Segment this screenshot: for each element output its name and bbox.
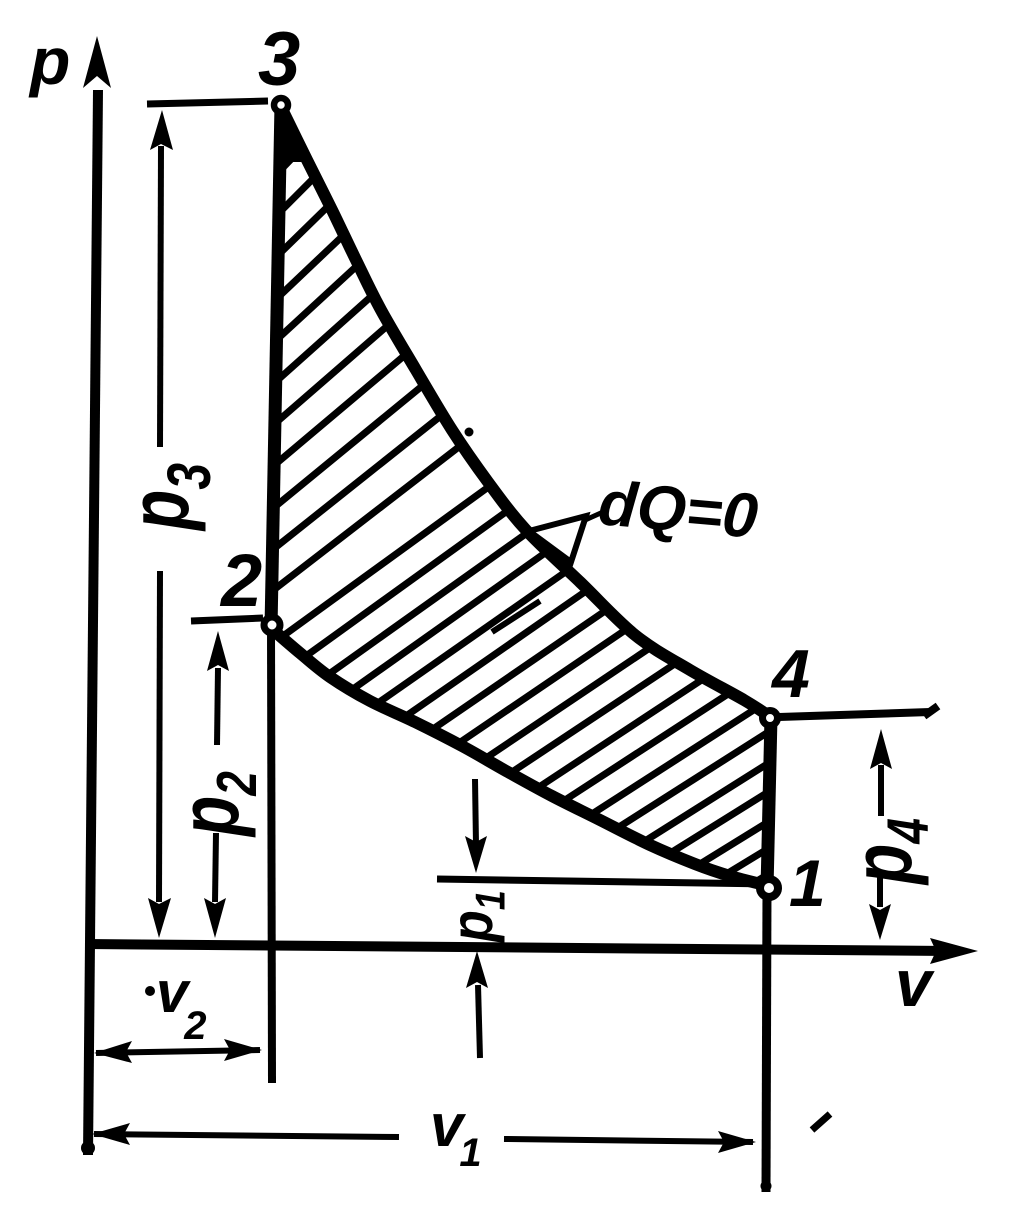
p4 dimension line — [878, 765, 884, 816]
point 1 — [760, 879, 778, 897]
svg-text:dQ=0: dQ=0 — [596, 468, 761, 552]
extension below point 1 — [766, 889, 767, 1192]
extra hatch fragment — [492, 601, 540, 632]
svg-text:1: 1 — [789, 846, 826, 920]
p1 label — [438, 890, 515, 944]
svg-text:v: v — [895, 946, 935, 1020]
stray dash — [812, 1114, 830, 1130]
p3 tick at point 3 — [147, 101, 268, 104]
dot before v2 label — [145, 986, 155, 996]
point 2 — [264, 617, 280, 633]
p2 tick at point 2 — [191, 618, 263, 621]
hatching between adiabats — [271, 0, 1015, 881]
p3 label — [112, 463, 223, 532]
ink blob below point 1 line end — [761, 1181, 772, 1192]
p3 dimension line — [160, 146, 161, 447]
dQ leader arrow — [583, 512, 603, 521]
svg-text:p: p — [28, 24, 70, 98]
ink blob at p axis bottom end — [81, 1141, 95, 1155]
v axis arrowhead — [930, 938, 978, 964]
v axis — [86, 944, 950, 951]
lower adiabat 2-1 — [272, 629, 769, 886]
p2 label — [162, 771, 268, 838]
point 3 — [274, 98, 288, 112]
wedge below point 3 — [275, 108, 302, 162]
stray dot — [465, 428, 474, 437]
p4 label — [835, 818, 941, 886]
extension below point 2 — [271, 628, 272, 1083]
p1 dimension arrows — [475, 779, 476, 845]
svg-text:2: 2 — [219, 539, 262, 622]
isochore line 2-3 — [271, 104, 281, 628]
p2 dimension line — [217, 668, 218, 745]
isochore line 4-1 — [767, 717, 771, 889]
point 4 — [763, 711, 778, 726]
p axis — [88, 90, 98, 1155]
upper adiabat 3-4 — [281, 107, 769, 716]
v1 dimension — [94, 1134, 399, 1137]
svg-text:4: 4 — [770, 636, 810, 712]
p axis arrowhead — [83, 36, 111, 88]
svg-text:3: 3 — [258, 17, 300, 102]
p1 level line — [437, 879, 768, 884]
v2 dimension — [96, 1050, 260, 1053]
line from point 4 to right — [779, 712, 930, 717]
